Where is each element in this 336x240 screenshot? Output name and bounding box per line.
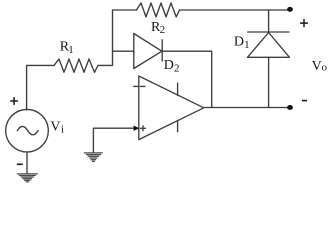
junction dot top right bbox=[287, 7, 293, 12]
label R2 bbox=[151, 20, 165, 36]
wire: source top to R1 left bbox=[27, 65, 54, 110]
label Vi bbox=[50, 120, 64, 136]
svg-text:V: V bbox=[50, 120, 60, 135]
resistor R1 bbox=[54, 59, 98, 72]
source polarity - bbox=[17, 163, 23, 165]
wire: R1 to node bbox=[98, 64, 113, 66]
op-amp U1 bbox=[134, 76, 204, 140]
wire: source bottom to ground bbox=[26, 152, 28, 174]
svg-text:V: V bbox=[312, 59, 322, 74]
wire: D2 cathode to op-amp output bbox=[162, 51, 212, 107]
wire: node to D2 anode bbox=[113, 50, 134, 52]
label D2 bbox=[164, 58, 180, 75]
svg-text:1: 1 bbox=[68, 44, 74, 56]
output terminal + bbox=[300, 19, 308, 27]
label D1 bbox=[234, 34, 250, 51]
svg-text:1: 1 bbox=[244, 39, 250, 51]
svg-text:D: D bbox=[164, 58, 174, 73]
wire: feedback top left bbox=[113, 9, 137, 11]
label Vo bbox=[312, 59, 328, 74]
label R1 bbox=[60, 40, 74, 56]
svg-text:2: 2 bbox=[160, 24, 166, 36]
diode D2 bbox=[134, 34, 162, 69]
junction dot bottom right bbox=[287, 105, 293, 110]
wire: node vertical (inverting node) bbox=[112, 10, 114, 65]
diode D1 bbox=[248, 32, 290, 57]
wire: feedback top right bbox=[180, 9, 291, 11]
wire: D1 anode to output wire bbox=[268, 57, 270, 107]
svg-text:i: i bbox=[61, 123, 64, 135]
source Vi circle bbox=[6, 109, 49, 152]
svg-text:D: D bbox=[234, 34, 244, 49]
wire: non-inverting input to ground bbox=[93, 128, 138, 152]
output terminal - bbox=[302, 100, 307, 102]
source polarity + bbox=[10, 97, 18, 105]
arrowhead at op-amp + input bbox=[134, 126, 140, 131]
svg-text:2: 2 bbox=[174, 63, 180, 75]
wire: D1 branch top bbox=[268, 10, 270, 32]
svg-text:o: o bbox=[322, 61, 328, 73]
ground (op-amp + input) bbox=[84, 153, 103, 162]
wire: op-amp output bbox=[204, 107, 290, 109]
ground (source) bbox=[17, 174, 38, 182]
resistor R2 bbox=[137, 3, 180, 17]
